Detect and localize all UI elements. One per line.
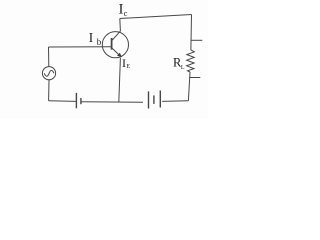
svg-text:c: c bbox=[124, 8, 128, 18]
svg-text:L: L bbox=[181, 65, 185, 71]
svg-text:I: I bbox=[122, 56, 126, 70]
svg-text:I: I bbox=[89, 30, 93, 45]
svg-text:E: E bbox=[126, 64, 130, 70]
svg-text:b: b bbox=[97, 37, 102, 47]
